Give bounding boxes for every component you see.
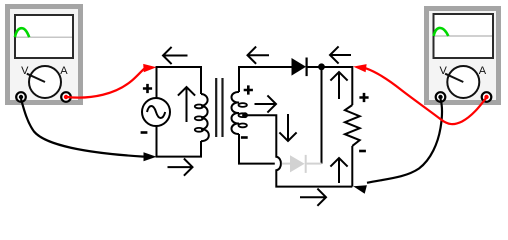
svg-text:V: V bbox=[21, 65, 29, 77]
svg-text:A: A bbox=[479, 65, 487, 77]
svg-text:A: A bbox=[60, 65, 68, 77]
svg-text:V: V bbox=[440, 65, 448, 77]
